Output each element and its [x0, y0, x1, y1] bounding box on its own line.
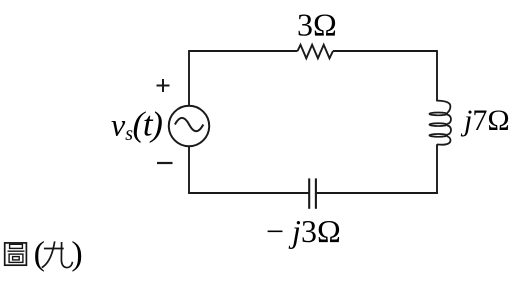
caption char NINE horizontal bar [44, 248, 64, 250]
inductor oval loop 2 [429, 123, 447, 126]
wire top-right segment [333, 50, 437, 52]
inductor bump 1 [447, 115, 451, 124]
capacitor C -j3 left plate [308, 178, 310, 208]
wire left lower (source to bottom) [188, 147, 190, 193]
inductor oval loop 3 [429, 134, 447, 137]
wire top-left segment [189, 50, 298, 52]
svg-text:vs(t): vs(t) [111, 105, 162, 146]
caption char NINE stroke pie (left-falling) [42, 241, 55, 267]
inductor exit arc [437, 136, 450, 144]
caption char NINE vertical hook stroke [61, 242, 72, 268]
caption figure nine: char TU outer box [5, 243, 27, 265]
wire right lower (inductor to bottom) [436, 144, 438, 194]
wire bottom-right segment [316, 192, 438, 194]
svg-text:− j3Ω: − j3Ω [266, 213, 341, 249]
svg-text:): ) [71, 235, 82, 272]
svg-text:3Ω: 3Ω [297, 7, 337, 43]
wire right upper (to inductor) [436, 50, 438, 101]
voltage source VS circle [169, 106, 209, 146]
resistor R 3ohm zigzag [298, 45, 334, 59]
plus polarity sign [157, 79, 170, 92]
voltage source sine wave [175, 118, 203, 131]
svg-text:j7Ω: j7Ω [460, 104, 510, 137]
inductor oval loop 1 [429, 113, 447, 116]
caption char TU inner parts [8, 244, 25, 262]
wire left upper (top to source) [188, 50, 190, 105]
capacitor C -j3 right plate [315, 178, 317, 208]
inductor L j7 coil entry arc [437, 101, 450, 113]
inductor bump 2 [447, 126, 451, 135]
wire bottom-left segment [188, 192, 309, 194]
minus polarity sign [157, 162, 173, 164]
